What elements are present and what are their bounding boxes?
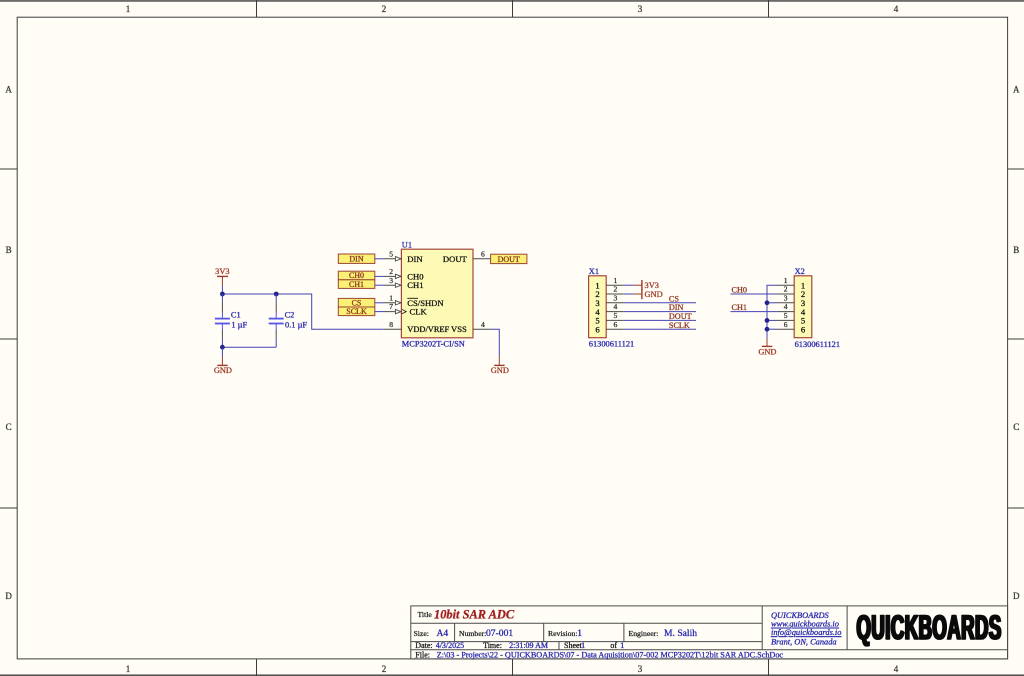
U1 pin name DOUT (443, 254, 468, 264)
junction X2 pin5 (765, 318, 770, 323)
svg-text:B: B (1013, 245, 1019, 255)
U1 pin name CH0 (407, 271, 423, 281)
svg-text:1: 1 (581, 641, 585, 650)
svg-text:3V3: 3V3 (645, 281, 659, 290)
svg-text:07-001: 07-001 (486, 628, 513, 639)
X2 pin 3 (777, 293, 795, 302)
value file path (437, 651, 784, 660)
U1 part number MCP3202T-CI/SN (402, 340, 465, 349)
node B junction (C2 top) (274, 292, 279, 297)
svg-text:1: 1 (614, 276, 618, 285)
svg-text:D: D (1013, 591, 1020, 601)
svg-text:1 µF: 1 µF (231, 321, 247, 330)
svg-text:Size:: Size: (414, 629, 429, 638)
zone tick marks top band (257, 0, 769, 17)
U1 clock symbol on CLK (402, 309, 407, 314)
company info QUICKBOARDS (771, 611, 841, 646)
C2 designator (285, 311, 295, 320)
svg-text:2: 2 (389, 267, 393, 276)
title block row 3: Date (415, 641, 432, 650)
company logo QUICKBOARDS (856, 608, 1003, 647)
wire X2 pin6 stub (767, 328, 777, 330)
zone labels right (1013, 85, 1020, 602)
svg-text:info@quickboards.io: info@quickboards.io (771, 628, 841, 637)
svg-text:6: 6 (784, 320, 788, 329)
title block row 1: Title label (418, 610, 433, 619)
svg-text:Sheet: Sheet (564, 641, 583, 650)
svg-text:2: 2 (614, 285, 618, 294)
capacitor C1 (215, 294, 230, 347)
X2 pin 6 (777, 320, 795, 329)
svg-text:X1: X1 (589, 267, 599, 276)
U1 designator (402, 240, 412, 249)
wire X2 pin3 stub (767, 302, 777, 304)
ground (X2) (758, 339, 776, 357)
U1 pin name CH1 (407, 280, 423, 290)
X2 pin 4 (777, 302, 795, 311)
svg-text:4: 4 (481, 320, 485, 329)
svg-text:2: 2 (784, 285, 788, 294)
svg-text:6: 6 (481, 249, 485, 258)
zone labels top (126, 4, 899, 14)
wire X2 ground bus vertical (767, 285, 777, 339)
power port 3V3 (caps) (215, 267, 229, 286)
C2 value 0.1 uF (285, 321, 307, 330)
svg-text:6: 6 (614, 320, 618, 329)
junction X2 pin3 (765, 300, 770, 305)
svg-text:2:31:09 AM: 2:31:09 AM (509, 641, 548, 650)
svg-text:SCLK: SCLK (346, 307, 367, 316)
zone tick marks bottom band (257, 659, 769, 676)
svg-text:Z:\03 - Projects\22 - QUICKBOA: Z:\03 - Projects\22 - QUICKBOARDS\07 - D… (437, 651, 784, 660)
svg-text:1: 1 (389, 293, 393, 302)
capacitor C2 (269, 294, 284, 347)
X2 pin 5 (777, 311, 795, 320)
net label CH0 (732, 286, 747, 295)
node A junction (C1 top) (220, 292, 225, 297)
value of 1 (620, 641, 624, 650)
X2 designator (795, 267, 805, 276)
wire node C to ground (221, 347, 223, 356)
svg-text:CH1: CH1 (732, 303, 747, 312)
net label DIN (669, 303, 684, 312)
svg-text:4: 4 (784, 302, 788, 311)
svg-text:C2: C2 (285, 311, 295, 320)
svg-text:3V3: 3V3 (215, 267, 229, 276)
port CH1 (338, 280, 375, 289)
U1 pin 4 VSS (473, 320, 490, 329)
wire port DIN to U1 (375, 258, 384, 260)
svg-text:A4: A4 (437, 628, 449, 639)
title block row 4: File (415, 651, 430, 660)
wire X1 pin3 net CS (624, 302, 696, 304)
svg-text:A: A (1013, 85, 1020, 95)
zone tick marks left band (0, 169, 17, 508)
svg-text:B: B (6, 245, 12, 255)
wire X1 pin6 net SCLK (624, 328, 696, 330)
svg-text:5: 5 (614, 311, 618, 320)
svg-text:C: C (6, 422, 12, 432)
U1 pin 8 VDD/VREF (384, 320, 401, 329)
svg-text:6: 6 (801, 324, 806, 334)
svg-text:1: 1 (784, 276, 788, 285)
svg-text:0.1 µF: 0.1 µF (285, 321, 307, 330)
svg-text:6: 6 (595, 324, 600, 334)
U1 pin 1 CS/SHDN (384, 293, 401, 305)
zone labels left (5, 85, 12, 602)
wire VSS to ground corner (490, 329, 499, 357)
svg-text:CH1: CH1 (349, 280, 364, 289)
port DOUT (491, 254, 527, 264)
U1 pin name VSS (451, 324, 467, 334)
ground (caps) (214, 357, 232, 376)
wire X1 pin2 to GND (624, 293, 634, 295)
label Sheet (564, 641, 583, 650)
X1 pin 4 (606, 302, 624, 311)
wire CH1 to X2 pin4 (731, 311, 777, 313)
svg-text:SCLK: SCLK (669, 321, 690, 330)
svg-text:X2: X2 (795, 267, 805, 276)
value A4 (437, 628, 449, 639)
C1 value 1 uF (231, 321, 247, 330)
value revision 1 (577, 628, 582, 639)
X2 part number (795, 340, 840, 349)
svg-text:10bit SAR ADC: 10bit SAR ADC (434, 608, 515, 622)
wire X1 pin4 net DIN (624, 311, 696, 313)
svg-text:3: 3 (614, 293, 618, 302)
svg-text:7: 7 (389, 302, 393, 311)
X2 pin 1 (777, 276, 795, 285)
U1 pin 2 CH0 (384, 267, 401, 279)
value sheet 1 (581, 641, 585, 650)
svg-text:DIN: DIN (669, 303, 684, 312)
wire X2 pin5 stub (767, 319, 777, 321)
svg-text:DOUT: DOUT (498, 255, 520, 264)
label Number (459, 629, 486, 638)
svg-text:DOUT: DOUT (443, 254, 468, 264)
power port 3V3 (X1) (634, 280, 659, 290)
port CS (338, 298, 375, 307)
svg-text:C: C (1013, 422, 1019, 432)
title block row 2: Size (414, 629, 429, 638)
svg-text:3: 3 (638, 664, 643, 674)
value time (509, 641, 548, 650)
wire port CS to U1 (375, 302, 384, 304)
X1 pin 6 (606, 320, 624, 329)
X2 inside pin numbers (801, 280, 806, 334)
title text 10bit SAR ADC (434, 608, 515, 622)
svg-text:DIN: DIN (407, 254, 423, 264)
junction X2 pin6 (765, 327, 770, 332)
svg-text:2: 2 (382, 664, 387, 674)
svg-text:3: 3 (389, 276, 393, 285)
wire port SCLK to U1 CLK (375, 311, 384, 313)
U1 pin 3 CH1 (384, 276, 401, 288)
svg-text:Date:: Date: (415, 641, 432, 650)
U1 pin name VDD/VREF (407, 325, 449, 334)
label Time (483, 641, 502, 650)
svg-text:M. Salih: M. Salih (664, 628, 697, 639)
svg-text:5: 5 (389, 249, 393, 258)
op-amp U1 body (MCP3202 ADC) (401, 249, 473, 338)
wire 3V3 to node A (221, 285, 223, 294)
U1 pin 6 DOUT (473, 249, 490, 258)
connector X1 body (589, 276, 607, 338)
svg-text:CS: CS (669, 294, 679, 303)
X1 part number (589, 339, 634, 348)
power port GND (X1) (634, 289, 663, 299)
wire CH0 to X2 pin2 (731, 293, 777, 295)
wire node A to VDD corner (222, 294, 384, 329)
net label DOUT (669, 312, 692, 321)
value M. Salih (664, 628, 697, 639)
port CH0 (338, 271, 375, 280)
svg-text:1: 1 (126, 4, 131, 14)
svg-text:CH1: CH1 (407, 280, 423, 290)
net label CH1 (732, 303, 747, 312)
svg-text:Brant, ON, Canada: Brant, ON, Canada (771, 638, 837, 647)
svg-text:File:: File: (415, 651, 430, 660)
svg-text:U1: U1 (402, 240, 412, 249)
svg-text:1: 1 (577, 628, 582, 639)
U1 pin 7 CLK (384, 302, 401, 314)
X1 pin 2 (606, 285, 624, 294)
U1 pin name CS/SHDN with overline on CS (407, 298, 444, 308)
label Revision (548, 629, 577, 638)
svg-text:2: 2 (382, 4, 387, 14)
wire port CH0 to U1 (375, 275, 384, 277)
port DIN (338, 254, 375, 264)
svg-text:of: of (610, 641, 617, 650)
C1 designator (231, 311, 241, 320)
U1 pin name DIN (407, 254, 423, 264)
svg-text:CLK: CLK (410, 307, 428, 317)
value date (436, 641, 464, 650)
svg-text:Title: Title (418, 610, 433, 619)
X2 pin 2 (777, 285, 795, 294)
svg-text:GND: GND (491, 366, 509, 375)
svg-text:Time:: Time: (483, 641, 502, 650)
svg-text:61300611121: 61300611121 (589, 339, 634, 348)
X1 inside pin numbers (595, 280, 600, 334)
svg-text:4: 4 (614, 302, 618, 311)
label Engineer (629, 629, 659, 638)
svg-text:5: 5 (784, 311, 788, 320)
svg-text:A: A (5, 85, 12, 95)
svg-text:QUICKBOARDS: QUICKBOARDS (857, 608, 1002, 647)
svg-text:GND: GND (645, 290, 663, 299)
svg-text:CH0: CH0 (732, 286, 747, 295)
X1 pin 1 (606, 276, 624, 285)
svg-text:3: 3 (638, 4, 643, 14)
zone tick marks right band (1008, 169, 1024, 508)
svg-text:VDD/VREF: VDD/VREF (407, 325, 449, 334)
svg-text:Number:: Number: (459, 629, 486, 638)
X1 pin 5 (606, 311, 624, 320)
value 07-001 (486, 628, 513, 639)
svg-text:C1: C1 (231, 311, 241, 320)
X1 pin 3 (606, 293, 624, 302)
wire X1 pin5 net DOUT (624, 319, 696, 321)
svg-text:8: 8 (389, 320, 393, 329)
svg-text:1: 1 (126, 664, 131, 674)
svg-text:GND: GND (758, 347, 776, 356)
U1 pin name CLK (410, 307, 428, 317)
svg-text:Engineer:: Engineer: (629, 629, 659, 638)
wire C1 bottom to C2 bottom (222, 346, 276, 348)
svg-text:1: 1 (620, 641, 624, 650)
wire X1 pin1 to 3V3 (624, 284, 634, 286)
X1 designator (589, 267, 599, 276)
net label SCLK (669, 321, 690, 330)
port SCLK (338, 307, 375, 316)
svg-text:VSS: VSS (451, 324, 467, 334)
svg-text:Revision:: Revision: (548, 629, 577, 638)
node C junction (C1 bottom) (220, 345, 225, 350)
net label CS (669, 294, 679, 303)
svg-text:D: D (5, 591, 12, 601)
svg-text:MCP3202T-CI/SN: MCP3202T-CI/SN (402, 340, 465, 349)
svg-text:DIN: DIN (349, 255, 363, 264)
sheet outer border bottom (0, 674, 1024, 676)
svg-text:4/3/2025: 4/3/2025 (436, 641, 464, 650)
label of (610, 641, 617, 650)
connector X2 body (794, 276, 812, 338)
ground (U1 VSS) (491, 357, 509, 375)
U1 pin 5 DIN (384, 249, 401, 261)
svg-text:GND: GND (214, 366, 232, 375)
sheet outer border top (0, 0, 1024, 2)
svg-text:3: 3 (784, 293, 788, 302)
svg-text:4: 4 (894, 4, 899, 14)
wire port CH1 to U1 (375, 284, 384, 286)
svg-text:61300611121: 61300611121 (795, 340, 840, 349)
zone labels bottom (126, 664, 899, 674)
title block outline (411, 606, 1008, 659)
svg-text:4: 4 (894, 664, 899, 674)
svg-text:DOUT: DOUT (669, 312, 692, 321)
